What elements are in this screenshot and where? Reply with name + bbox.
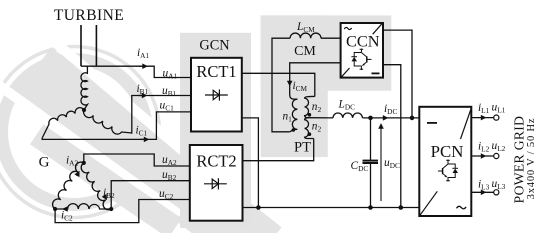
rectifier RCT1 box	[191, 58, 242, 132]
polarity dot n1	[292, 128, 296, 132]
watermark outer ring	[0, 47, 160, 218]
junction CCN return on rail	[399, 205, 404, 210]
transformer PT secondary lower n2	[305, 118, 314, 139]
diode symbol RCT1	[205, 89, 228, 100]
junction RCT1 negative on rail	[256, 205, 261, 210]
svg-text:G: G	[39, 155, 50, 171]
turbine shaft line right	[95, 25, 97, 66]
turbine shaft line left	[80, 25, 82, 66]
inductor L_CM	[272, 33, 341, 132]
wire CCN upper output to DC+	[383, 30, 412, 118]
current arrow i_B1	[139, 95, 147, 97]
CCN panel	[261, 15, 392, 90]
PCN diagonal bottom-left	[420, 191, 437, 215]
terminal circle L2	[494, 153, 499, 158]
PCN ac corner tilde	[457, 206, 467, 209]
CCN diagonal top-right	[373, 24, 382, 35]
grid line L3	[471, 191, 494, 193]
wire RCT1 positive output to PT secondary	[242, 73, 315, 96]
wire phase A1 to RCT1	[81, 66, 191, 77]
current arrow i_C2	[64, 208, 68, 210]
wire phase C2 to RCT2	[55, 200, 190, 223]
capacitor C_DC	[363, 118, 379, 208]
current arrow i_A1	[139, 65, 147, 67]
converter CCN box	[341, 23, 383, 78]
watermark white gap band upper	[25, 16, 241, 199]
svg-text:CM: CM	[294, 44, 316, 59]
junction CCN positive on rail	[410, 116, 415, 121]
converter PCN box	[419, 107, 471, 216]
svg-text:RCT1: RCT1	[196, 62, 236, 81]
delta node B2	[109, 207, 113, 211]
CM PT panel	[261, 15, 328, 157]
delta node C2	[53, 207, 57, 211]
polarity dot upper n2	[308, 113, 312, 117]
watermark diagonal slash	[15, 47, 282, 240]
current arrow i_CM	[289, 80, 291, 85]
svg-text:RCT2: RCT2	[196, 152, 236, 171]
rectifier RCT2 box	[190, 145, 243, 221]
junction C_DC top	[368, 116, 373, 121]
delta winding C2 (bottom coil)	[55, 204, 111, 209]
star node	[82, 108, 86, 112]
IGBT symbol PCN	[438, 160, 458, 182]
svg-text:CCN: CCN	[346, 31, 380, 50]
transformer PT primary n1	[290, 99, 298, 132]
svg-text:TURBINE: TURBINE	[54, 7, 124, 24]
wire phase B2 to RCT2	[111, 181, 190, 209]
center tap wire to L_DC	[309, 113, 419, 118]
terminal circle L3	[494, 190, 499, 195]
wire RCT1 negative output down	[242, 118, 259, 208]
watermark inner ring	[2, 60, 147, 205]
CCN ac corner tilde	[344, 27, 351, 29]
diode symbol RCT2	[204, 178, 227, 189]
svg-text:GCN: GCN	[199, 38, 229, 54]
svg-text:3x400 V / 50 Hz: 3x400 V / 50 Hz	[526, 118, 537, 200]
svg-text:POWER GRID: POWER GRID	[512, 116, 527, 204]
wire RCT2 positive output to PT secondary	[243, 139, 314, 161]
grid line L2	[471, 155, 494, 157]
watermark white gap band lower	[0, 79, 180, 215]
PCN diagonal top-right	[461, 110, 471, 140]
negative DC rail	[243, 207, 420, 209]
delta node A2	[82, 161, 86, 165]
wire phase A2 to RCT2	[84, 154, 190, 166]
delta winding A2 (left side coil)	[53, 162, 84, 209]
GCN panel	[180, 33, 251, 228]
terminal circle L1	[494, 115, 499, 120]
delta winding B2 (right side coil)	[81, 163, 111, 210]
grid line L1	[471, 117, 494, 119]
voltage arrow u_DC	[380, 125, 382, 202]
CCN dc corner minus	[372, 73, 380, 75]
wire CCN ac lower terminal / i_CM branch	[290, 63, 341, 99]
junction C_DC bottom	[368, 205, 373, 210]
current arrow i_B2	[105, 196, 107, 199]
CCN diagonal bottom-left	[342, 68, 350, 77]
winding A1 (vertical coil)	[81, 66, 87, 110]
polarity dot lower n2	[308, 132, 312, 136]
wire CCN lower output to DC-	[383, 65, 401, 208]
current arrow i_C1	[141, 138, 149, 140]
watermark handle bar	[30, 125, 182, 239]
transformer PT secondary upper n2	[305, 96, 315, 117]
svg-text:PT: PT	[294, 140, 311, 156]
winding B1 (diagonal coil to lower right)	[84, 96, 191, 135]
svg-text:PCN: PCN	[431, 142, 464, 161]
PCN dc corner minus	[427, 122, 437, 124]
current arrow i_A2	[77, 172, 79, 176]
winding C1 (diagonal coil to lower left)	[42, 108, 191, 140]
IGBT symbol CCN	[351, 49, 371, 71]
current arrow i_DC	[383, 117, 387, 119]
